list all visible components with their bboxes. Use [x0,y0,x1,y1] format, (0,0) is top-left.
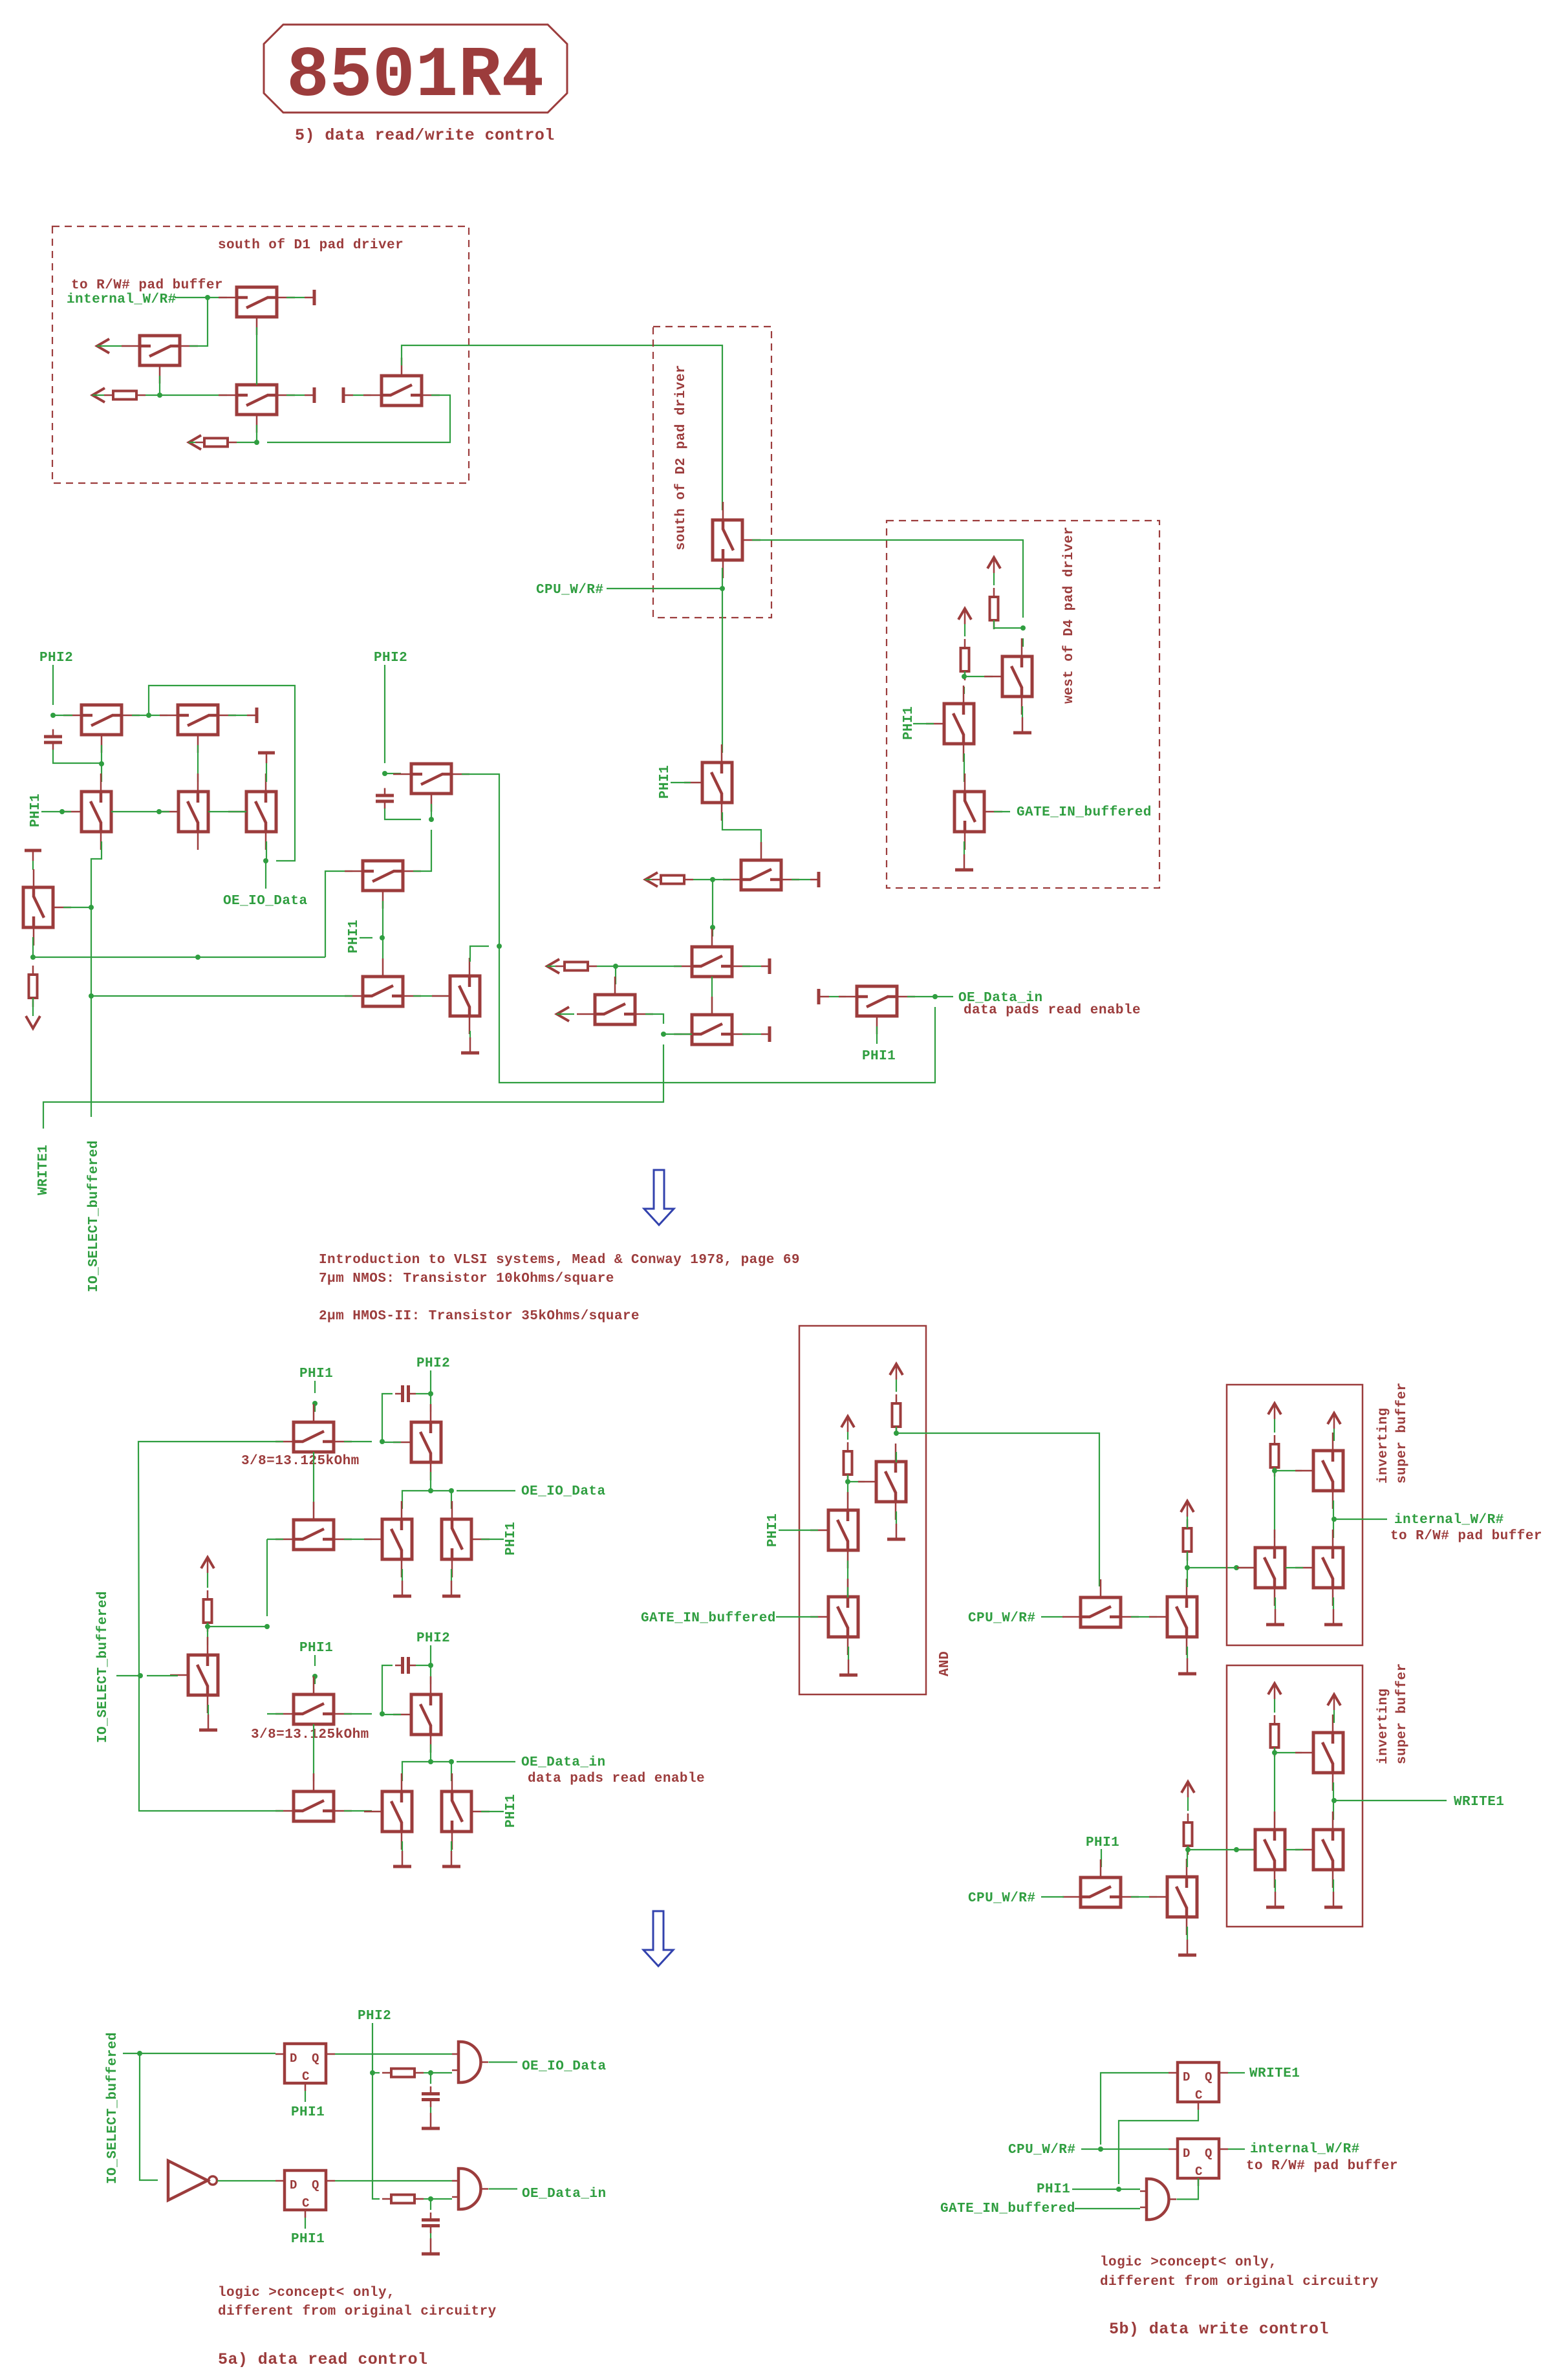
svg-text:IO_SELECT_buffered: IO_SELECT_buffered [96,1591,111,1743]
svg-text:south of D1 pad driver: south of D1 pad driver [218,238,404,253]
svg-text:PHI1: PHI1 [766,1513,781,1547]
svg-text:3/8=13.125kOhm: 3/8=13.125kOhm [241,1454,360,1469]
svg-text:CPU_W/R#: CPU_W/R# [536,583,603,598]
svg-text:to R/W# pad buffer: to R/W# pad buffer [71,278,223,293]
svg-text:C: C [1195,2165,1203,2179]
svg-text:inverting: inverting [1376,1408,1391,1484]
svg-text:PHI1: PHI1 [299,1641,333,1656]
svg-text:west of D4 pad driver: west of D4 pad driver [1062,526,1077,704]
svg-text:different from original circui: different from original circuitry [218,2304,497,2319]
svg-text:PHI1: PHI1 [291,2105,325,2120]
svg-text:different from original circui: different from original circuitry [1100,2275,1379,2289]
svg-text:inverting: inverting [1376,1689,1391,1764]
svg-text:PHI1: PHI1 [28,794,43,827]
svg-text:C: C [302,2070,310,2084]
svg-text:PHI1: PHI1 [658,765,673,799]
svg-text:data pads read enable: data pads read enable [964,1003,1141,1018]
svg-text:CPU_W/R#: CPU_W/R# [968,1891,1035,1906]
svg-text:PHI1: PHI1 [1037,2182,1070,2197]
svg-text:8501R4: 8501R4 [286,36,544,117]
svg-text:3/8=13.125kOhm: 3/8=13.125kOhm [251,1727,369,1742]
svg-text:CPU_W/R#: CPU_W/R# [1008,2143,1075,2158]
svg-text:D: D [290,2051,297,2066]
svg-text:PHI1: PHI1 [504,1794,519,1828]
svg-text:WRITE1: WRITE1 [36,1145,51,1195]
svg-text:OE_IO_Data: OE_IO_Data [521,1484,606,1499]
svg-text:Q: Q [1205,2147,1212,2161]
svg-text:super buffer: super buffer [1395,1663,1410,1764]
svg-text:AND: AND [938,1651,953,1676]
svg-text:OE_IO_Data: OE_IO_Data [223,894,308,909]
svg-text:PHI2: PHI2 [374,651,407,665]
svg-text:super buffer: super buffer [1395,1382,1410,1484]
svg-text:internal_W/R#: internal_W/R# [67,292,177,307]
svg-text:PHI2: PHI2 [416,1631,450,1646]
svg-text:GATE_IN_buffered: GATE_IN_buffered [641,1611,776,1626]
svg-text:5) data read/write control: 5) data read/write control [295,126,555,145]
svg-text:internal_W/R#: internal_W/R# [1394,1513,1504,1528]
svg-text:CPU_W/R#: CPU_W/R# [968,1611,1035,1626]
svg-text:GATE_IN_buffered: GATE_IN_buffered [940,2201,1075,2216]
svg-text:IO_SELECT_buffered: IO_SELECT_buffered [105,2032,120,2184]
svg-text:2μm HMOS-II: Transistor 35kOhm: 2μm HMOS-II: Transistor 35kOhms/square [319,1309,640,1324]
svg-text:PHI1: PHI1 [901,706,916,740]
svg-text:IO_SELECT_buffered: IO_SELECT_buffered [87,1140,102,1292]
svg-text:Q: Q [1205,2070,1212,2084]
svg-text:7μm NMOS: Transistor 10kOhms/s: 7μm NMOS: Transistor 10kOhms/square [319,1271,614,1286]
svg-text:GATE_IN_buffered: GATE_IN_buffered [1017,805,1152,820]
svg-text:D: D [1183,2147,1191,2161]
svg-text:Q: Q [312,2178,319,2192]
svg-text:OE_Data_in: OE_Data_in [521,1755,606,1770]
svg-text:to R/W# pad buffer: to R/W# pad buffer [1246,2159,1398,2174]
svg-text:D: D [1183,2070,1191,2084]
svg-text:PHI2: PHI2 [39,651,73,665]
svg-text:PHI1: PHI1 [299,1367,333,1381]
svg-text:WRITE1: WRITE1 [1249,2066,1300,2081]
svg-text:Q: Q [312,2051,319,2066]
svg-text:PHI1: PHI1 [347,920,361,953]
svg-text:D: D [290,2178,297,2192]
svg-text:C: C [302,2196,310,2211]
svg-text:south of D2 pad driver: south of D2 pad driver [674,365,689,550]
svg-text:PHI1: PHI1 [291,2232,325,2247]
svg-text:logic >concept< only,: logic >concept< only, [218,2286,395,2300]
svg-text:OE_Data_in: OE_Data_in [522,2187,607,2201]
svg-text:WRITE1: WRITE1 [1454,1795,1504,1810]
svg-text:internal_W/R#: internal_W/R# [1250,2142,1360,2157]
svg-text:PHI1: PHI1 [504,1522,519,1555]
svg-text:Introduction to VLSI systems,: Introduction to VLSI systems, Mead & Con… [319,1253,800,1268]
svg-text:to R/W# pad buffer: to R/W# pad buffer [1390,1529,1542,1544]
svg-text:data pads read enable: data pads read enable [528,1771,705,1786]
svg-text:5a) data read control: 5a) data read control [218,2350,428,2369]
svg-text:PHI2: PHI2 [358,2009,391,2024]
svg-text:OE_IO_Data: OE_IO_Data [522,2059,607,2074]
svg-text:PHI1: PHI1 [1086,1835,1119,1850]
svg-text:PHI2: PHI2 [416,1356,450,1371]
svg-text:C: C [1195,2088,1203,2103]
svg-text:logic >concept< only,: logic >concept< only, [1100,2255,1277,2270]
svg-text:PHI1: PHI1 [862,1049,896,1064]
svg-text:5b) data write control: 5b) data write control [1109,2320,1329,2339]
